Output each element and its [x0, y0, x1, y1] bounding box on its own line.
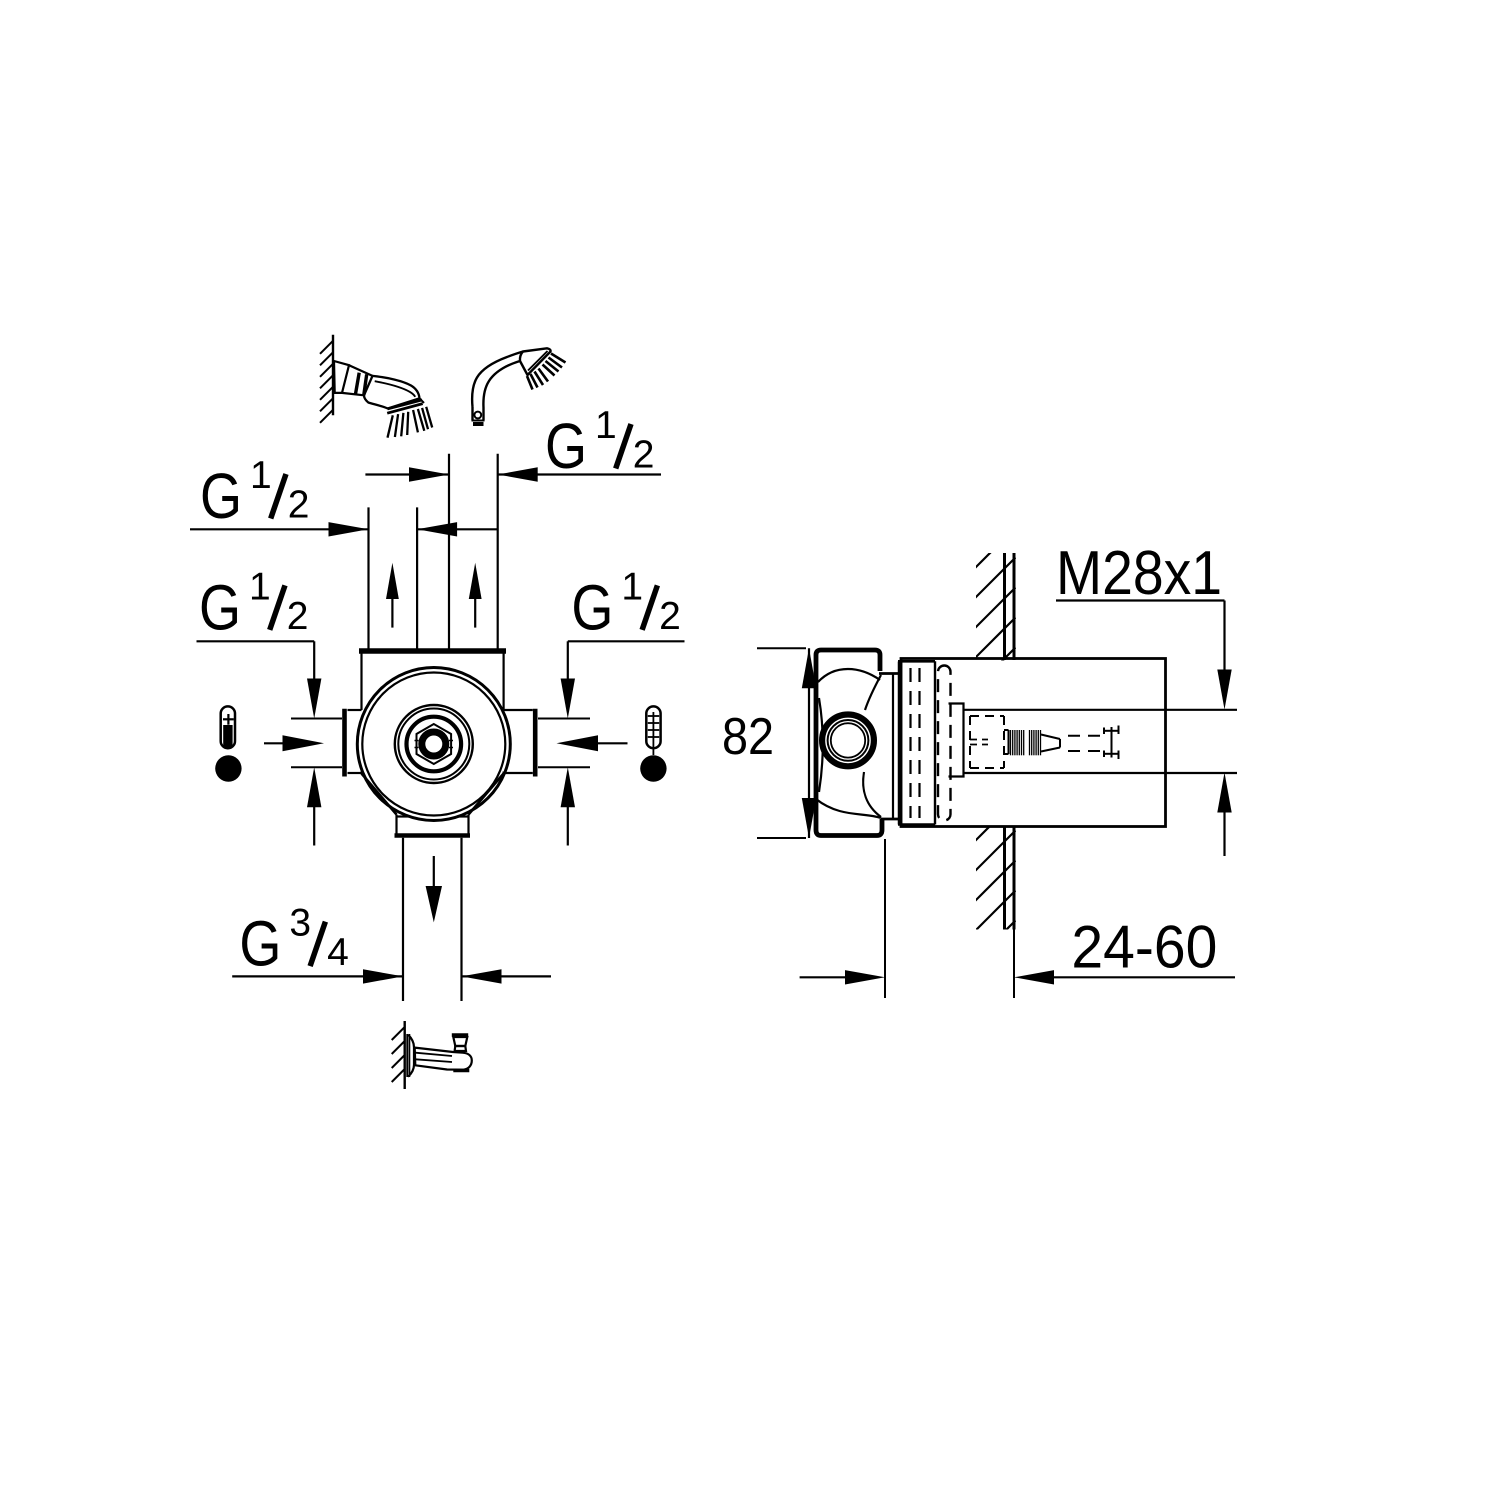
- svg-text:G: G: [239, 908, 281, 980]
- svg-text:1: 1: [250, 454, 272, 497]
- svg-text:24-60: 24-60: [1071, 914, 1217, 981]
- svg-text:1: 1: [595, 404, 617, 447]
- svg-text:2: 2: [288, 484, 310, 527]
- svg-text:G: G: [545, 410, 587, 482]
- svg-text:1: 1: [249, 565, 271, 608]
- svg-text:M28x1: M28x1: [1056, 539, 1222, 608]
- svg-text:G: G: [571, 571, 613, 643]
- svg-text:1: 1: [621, 565, 643, 608]
- svg-text:G: G: [200, 460, 242, 532]
- svg-text:3: 3: [289, 902, 311, 945]
- svg-text:2: 2: [287, 595, 309, 638]
- svg-text:2: 2: [633, 434, 655, 477]
- svg-text:2: 2: [659, 595, 681, 638]
- svg-text:4: 4: [327, 931, 349, 974]
- svg-text:G: G: [199, 571, 241, 643]
- svg-text:82: 82: [722, 708, 774, 766]
